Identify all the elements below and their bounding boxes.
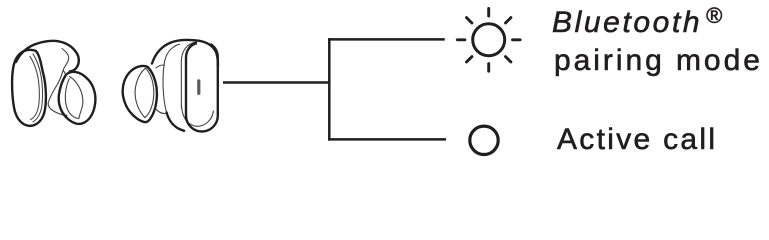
blink icon ray bottom [487, 64, 490, 72]
right earbud body left edge [163, 62, 167, 113]
blink icon ray right [513, 38, 521, 41]
blink icon ray bottom-right [506, 57, 511, 62]
fork vertical wire [328, 38, 331, 141]
blink icon ray top [487, 8, 490, 16]
left earbud ear tip opening far rim [70, 77, 83, 119]
right earbud [123, 40, 218, 132]
right earbud body seam [164, 44, 179, 62]
blink icon ray left [457, 38, 465, 41]
left earbud face module seam [48, 49, 69, 116]
left earbud face seam line 1 [33, 54, 43, 122]
bottom branch wire [328, 138, 446, 141]
right earbud ear tip opening inner rim [145, 69, 154, 118]
right earbud ear tip outline [123, 66, 157, 122]
right earbud front face outline [186, 43, 218, 132]
right earbud LED indicator [197, 79, 200, 95]
wire from earbud to fork [223, 81, 330, 84]
steady LED icon (Active call) [470, 126, 498, 154]
blink icon ray bottom-left [467, 57, 472, 62]
left earbud body silhouette [16, 41, 79, 71]
blink icon ray top-left [467, 18, 472, 23]
right earbud body silhouette [152, 40, 218, 66]
right earbud body bottom edge [167, 113, 185, 131]
right earbud nozzle bottom [155, 108, 166, 114]
label: Active call [557, 125, 717, 155]
blink icon ray top-right [506, 18, 511, 23]
left earbud [12, 41, 95, 126]
label: pairing mode [554, 46, 763, 76]
left earbud nozzle junction [63, 70, 70, 75]
right earbud ear tip opening far rim [135, 68, 145, 117]
right earbud face seam line [181, 42, 213, 126]
blinking LED icon (Bluetooth pairing) [457, 8, 520, 71]
left earbud ear tip opening inner rim [65, 79, 79, 119]
right earbud nozzle top [156, 65, 164, 68]
label: Bluetooth (italic) [552, 8, 722, 38]
left earbud face seam line 2 [30, 56, 40, 119]
blink icon circle [473, 24, 505, 56]
left earbud front face outline [12, 50, 46, 126]
left earbud ear tip outline [59, 72, 96, 124]
top branch wire [328, 38, 445, 41]
